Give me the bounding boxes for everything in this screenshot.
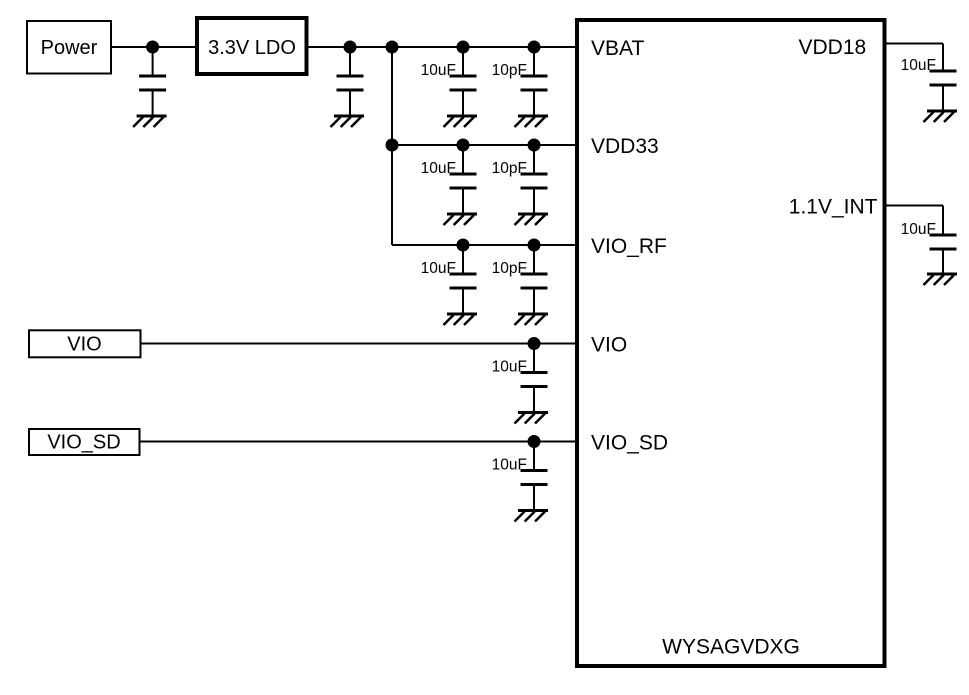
svg-text:10pF: 10pF [492, 62, 527, 79]
svg-text:VIO: VIO [591, 333, 627, 356]
svg-text:10uF: 10uF [492, 457, 527, 474]
svg-text:10uF: 10uF [901, 57, 936, 74]
svg-text:10uF: 10uF [421, 160, 456, 177]
svg-text:1.1V_INT: 1.1V_INT [789, 196, 878, 219]
svg-text:VIO: VIO [67, 333, 101, 355]
svg-text:3.3V LDO: 3.3V LDO [208, 37, 296, 59]
svg-text:10uF: 10uF [901, 221, 936, 238]
svg-text:10pF: 10pF [492, 160, 527, 177]
svg-text:VIO_SD: VIO_SD [591, 431, 668, 454]
svg-text:VBAT: VBAT [591, 37, 644, 60]
svg-text:VIO_RF: VIO_RF [591, 235, 667, 258]
svg-text:10uF: 10uF [421, 260, 456, 277]
svg-text:VDD18: VDD18 [798, 36, 866, 59]
svg-text:10uF: 10uF [421, 62, 456, 79]
svg-text:10uF: 10uF [492, 359, 527, 376]
svg-text:VIO_SD: VIO_SD [47, 431, 120, 453]
svg-text:10pF: 10pF [492, 260, 527, 277]
svg-text:Power: Power [41, 37, 98, 59]
svg-text:WYSAGVDXG: WYSAGVDXG [662, 636, 800, 659]
svg-text:VDD33: VDD33 [591, 135, 659, 158]
